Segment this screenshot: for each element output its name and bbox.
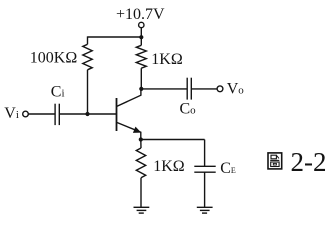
svg-text:100KΩ: 100KΩ [30, 50, 78, 67]
svg-text:CE: CE [220, 160, 236, 177]
svg-text:Vi: Vi [4, 105, 19, 122]
svg-text:1KΩ: 1KΩ [153, 158, 185, 175]
svg-text:Co: Co [180, 100, 197, 117]
svg-text:Ci: Ci [51, 83, 65, 100]
svg-text:+10.7V: +10.7V [116, 6, 165, 23]
svg-text:2-2: 2-2 [291, 147, 327, 177]
svg-text:Vo: Vo [227, 81, 245, 98]
svg-text:1KΩ: 1KΩ [151, 51, 183, 68]
